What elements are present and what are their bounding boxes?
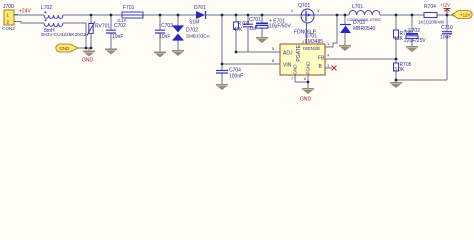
svg-text:2: 2: [291, 8, 294, 13]
svg-text:C703: C703: [161, 23, 173, 29]
svg-text:3.0K: 3.0K: [394, 67, 405, 73]
svg-text:+12V: +12V: [440, 3, 450, 8]
svg-text:FB: FB: [318, 56, 325, 62]
svg-text:GND: GND: [82, 58, 94, 64]
svg-text:1K(J)100mW: 1K(J)100mW: [418, 20, 445, 25]
svg-text:R704: R704: [424, 4, 436, 10]
svg-text:C701: C701: [249, 17, 261, 23]
svg-text:GND: GND: [293, 64, 298, 75]
svg-text:SIOV-CU3225K20G2: SIOV-CU3225K20G2: [41, 32, 87, 38]
svg-text:10nF: 10nF: [159, 34, 170, 40]
svg-text:RV701: RV701: [95, 24, 110, 30]
svg-text:3: 3: [317, 8, 320, 13]
svg-text:D701: D701: [194, 5, 206, 11]
svg-text:47K: 47K: [234, 27, 244, 33]
svg-text:CON2: CON2: [2, 26, 15, 31]
svg-text:10nF: 10nF: [112, 34, 123, 40]
svg-text:VIN: VIN: [283, 63, 292, 69]
svg-text:+12V: +12V: [460, 12, 471, 17]
svg-text:ADJ: ADJ: [283, 51, 293, 57]
svg-text:1: 1: [327, 41, 330, 46]
svg-text:F701: F701: [123, 5, 135, 11]
svg-text:1uF: 1uF: [249, 26, 258, 32]
svg-text:10nF: 10nF: [440, 35, 451, 41]
svg-text:CDRH(2D08)-470MC: CDRH(2D08)-470MC: [347, 18, 382, 22]
svg-text:S1M: S1M: [189, 20, 199, 26]
svg-text:LM3485: LM3485: [305, 39, 323, 45]
svg-text:13K: 13K: [394, 36, 404, 42]
svg-text:J700: J700: [3, 4, 14, 10]
svg-text:L702: L702: [41, 5, 52, 11]
svg-text:8: 8: [272, 58, 275, 63]
svg-text:10uF/50V: 10uF/50V: [269, 24, 291, 30]
svg-text:GND: GND: [300, 97, 312, 103]
svg-text:22uF/25V: 22uF/25V: [404, 38, 426, 44]
svg-text:SMBJ33CA: SMBJ33CA: [186, 34, 211, 39]
svg-text:6: 6: [304, 76, 307, 81]
svg-text:100nF: 100nF: [229, 74, 243, 80]
svg-text:Q701: Q701: [298, 3, 310, 9]
svg-text:ISENSE: ISENSE: [303, 46, 320, 51]
svg-text:3: 3: [327, 63, 330, 68]
svg-text:0.1A: 0.1A: [118, 18, 127, 23]
svg-text:PGATE: PGATE: [296, 44, 302, 61]
svg-text:C702: C702: [114, 23, 126, 29]
svg-text:4: 4: [327, 53, 330, 58]
svg-text:5: 5: [272, 46, 275, 51]
svg-text:MBR0540: MBR0540: [353, 26, 375, 32]
svg-text:C710: C710: [441, 25, 453, 31]
svg-text:+24V: +24V: [19, 9, 31, 15]
svg-text:GND: GND: [60, 46, 70, 51]
svg-text:L701: L701: [352, 4, 363, 10]
svg-text:+ E702: + E702: [404, 28, 420, 34]
svg-text:7: 7: [291, 76, 294, 81]
svg-text:PGND: PGND: [306, 61, 311, 75]
